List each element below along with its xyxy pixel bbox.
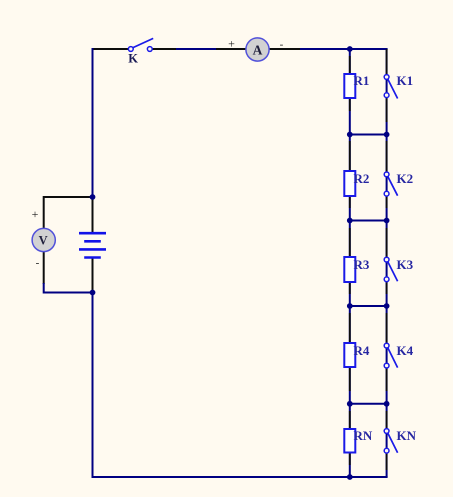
resistor R2 bbox=[344, 171, 355, 196]
wire bbox=[176, 48, 216, 50]
node bbox=[347, 401, 353, 407]
svg-text:R2: R2 bbox=[354, 171, 370, 186]
node bbox=[347, 132, 353, 138]
svg-text:K4: K4 bbox=[397, 343, 414, 358]
switch K bbox=[128, 38, 153, 65]
svg-text:R1: R1 bbox=[354, 73, 370, 88]
resistor R4 bbox=[344, 343, 355, 367]
wire: rung connector node 3 bbox=[350, 305, 387, 307]
switch K4 bbox=[384, 343, 413, 368]
resistor R3 bbox=[344, 257, 355, 282]
wire: resistor branch column bbox=[349, 49, 351, 477]
wire: left rail lower bbox=[92, 293, 94, 479]
resistor R1 bbox=[344, 74, 355, 98]
switch KN bbox=[384, 428, 416, 453]
svg-text:K3: K3 bbox=[397, 257, 414, 272]
wire: top rail switch K to ammeter bbox=[153, 48, 177, 50]
node bbox=[384, 132, 390, 138]
node: voltmeter tap top bbox=[90, 194, 96, 200]
wire: resistor leads (black overlays) bbox=[349, 56, 351, 465]
node bbox=[384, 218, 390, 224]
svg-text:K2: K2 bbox=[397, 171, 414, 186]
svg-text:K: K bbox=[128, 52, 138, 66]
wire: top rail left segment (corner to switch K) bbox=[93, 48, 129, 50]
wire bbox=[43, 283, 93, 293]
battery BT1 bbox=[79, 233, 106, 257]
wire: lead out of battery bbox=[92, 257, 94, 293]
switch K1 bbox=[384, 73, 413, 99]
wire: rung connector node 1 bbox=[350, 134, 387, 136]
wire: rung connector node 4 bbox=[350, 403, 387, 405]
svg-text:V: V bbox=[39, 234, 48, 248]
svg-text:A: A bbox=[253, 42, 263, 57]
svg-text:RN: RN bbox=[354, 428, 373, 443]
node: top rail / resistor ladder junction bbox=[347, 46, 353, 52]
switch K2 bbox=[384, 171, 413, 196]
resistor RN bbox=[344, 429, 355, 453]
node bbox=[347, 303, 353, 309]
svg-text:-: - bbox=[280, 39, 284, 51]
svg-text:R3: R3 bbox=[354, 257, 370, 272]
svg-text:-: - bbox=[36, 257, 40, 269]
wire: voltmeter branch top bbox=[44, 197, 93, 229]
node: voltmeter tap bottom bbox=[90, 290, 96, 296]
svg-text:+: + bbox=[228, 37, 235, 51]
node bbox=[384, 303, 390, 309]
wire: bottom rail bbox=[92, 476, 388, 478]
wire: lead into battery bbox=[92, 197, 94, 233]
voltmeter V bbox=[32, 228, 55, 251]
wire: switch branch column bbox=[386, 49, 388, 477]
wire: switch leads (black overlays) bbox=[386, 49, 388, 470]
node bbox=[347, 218, 353, 224]
svg-text:KN: KN bbox=[397, 428, 417, 443]
svg-text:K1: K1 bbox=[397, 73, 414, 88]
svg-text:R4: R4 bbox=[354, 343, 370, 358]
wire: rung connector node 2 bbox=[350, 220, 387, 222]
wire: left rail upper bbox=[92, 48, 94, 197]
svg-text:+: + bbox=[32, 207, 39, 221]
node bbox=[384, 401, 390, 407]
wire bbox=[300, 48, 388, 50]
wire: voltmeter branch bottom bbox=[43, 252, 45, 285]
wire bbox=[216, 48, 247, 50]
switch K3 bbox=[384, 257, 413, 282]
ammeter A bbox=[246, 38, 269, 61]
node: bottom rail junction bbox=[347, 474, 353, 480]
wire: top rail ammeter to right corner bbox=[269, 48, 300, 50]
